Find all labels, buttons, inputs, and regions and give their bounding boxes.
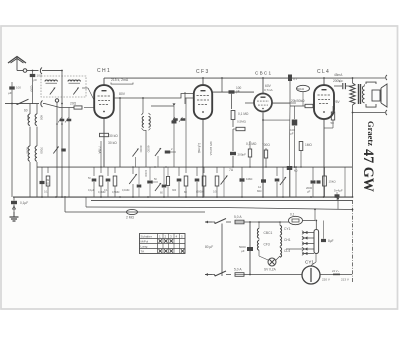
svg-text:0,5MΩ: 0,5MΩ — [112, 191, 120, 194]
svg-text:6000: 6000 — [139, 146, 143, 153]
svg-text:0,1MΩ: 0,1MΩ — [122, 189, 130, 192]
svg-text:45mA: 45mA — [334, 73, 343, 77]
svg-text:10000: 10000 — [144, 170, 147, 178]
svg-text:220 V: 220 V — [322, 278, 330, 282]
svg-text:Lang: Lang — [141, 245, 148, 249]
svg-text:15kΩ: 15kΩ — [329, 180, 337, 184]
svg-text:(500)Ω: (500)Ω — [196, 190, 204, 194]
svg-text:80 µF: 80 µF — [205, 245, 213, 249]
svg-text:pF: pF — [34, 78, 38, 82]
svg-text:30 kΩ: 30 kΩ — [108, 141, 117, 145]
svg-text:435 k/2mA: 435 k/2mA — [209, 141, 213, 155]
svg-text:µF: µF — [290, 132, 294, 136]
svg-text:0,1: 0,1 — [293, 77, 297, 81]
svg-text:µF: µF — [241, 249, 245, 253]
svg-text:213 V: 213 V — [341, 278, 349, 282]
svg-text:20Ω: 20Ω — [70, 102, 77, 106]
svg-text:µF: µF — [8, 91, 12, 95]
svg-text:1,8 mA: 1,8 mA — [197, 143, 201, 154]
svg-text:0,1µF: 0,1µF — [88, 189, 95, 192]
svg-text:0,1µF: 0,1µF — [20, 201, 28, 205]
svg-text:50: 50 — [331, 121, 335, 125]
svg-text:-200: -200 — [30, 85, 34, 92]
svg-text:Graetz: Graetz — [366, 121, 376, 146]
svg-text:5,0 A: 5,0 A — [234, 268, 242, 272]
svg-text:C B C 1: C B C 1 — [255, 71, 272, 76]
svg-text:pF: pF — [236, 90, 240, 94]
svg-text:0,7mA: 0,7mA — [264, 88, 273, 92]
svg-text:MiPol: MiPol — [141, 240, 149, 244]
svg-text:5,0 A: 5,0 A — [234, 215, 242, 219]
svg-text:47 GW: 47 GW — [360, 149, 376, 192]
svg-text:C F 3: C F 3 — [196, 69, 208, 75]
svg-text:80V: 80V — [119, 92, 126, 96]
svg-text:7000: 7000 — [40, 147, 44, 154]
svg-text:C L 4: C L 4 — [317, 69, 329, 75]
svg-text:0,5: 0,5 — [213, 191, 217, 194]
svg-text:200pF: 200pF — [238, 153, 247, 157]
svg-text:5+4µF: 5+4µF — [334, 189, 343, 193]
svg-text:µF: µF — [307, 190, 311, 194]
svg-text:4µF: 4µF — [338, 79, 343, 83]
svg-text:CY1: CY1 — [284, 227, 291, 231]
svg-text:0,5MΩ: 0,5MΩ — [237, 120, 247, 124]
svg-text:CH1: CH1 — [284, 238, 291, 242]
svg-text:0,1 MΩ: 0,1 MΩ — [238, 112, 249, 116]
svg-text:300: 300 — [172, 189, 177, 192]
svg-text:6000: 6000 — [147, 146, 151, 153]
svg-text:6000: 6000 — [26, 147, 30, 154]
svg-text:30 kΩ: 30 kΩ — [109, 134, 118, 138]
svg-text:0,3 MΩ: 0,3 MΩ — [246, 142, 257, 146]
svg-text:Schalter: Schalter — [141, 235, 152, 239]
svg-text:25V: 25V — [334, 100, 341, 104]
svg-text:600: 600 — [26, 115, 30, 120]
svg-text:1MΩ: 1MΩ — [305, 143, 312, 147]
svg-text:215 k, 2mA: 215 k, 2mA — [111, 78, 129, 82]
svg-text:MΩ: MΩ — [257, 189, 261, 193]
svg-text:CL4: CL4 — [284, 249, 290, 253]
svg-text:SV 0,2A: SV 0,2A — [264, 268, 277, 272]
svg-text:50kΩ: 50kΩ — [297, 87, 305, 91]
svg-text:0,1: 0,1 — [290, 213, 295, 217]
svg-text:100: 100 — [16, 86, 21, 90]
svg-text:C H 1: C H 1 — [97, 68, 110, 74]
svg-text:24 V ₓ: 24 V ₓ — [332, 269, 339, 273]
svg-text:0,1: 0,1 — [44, 191, 48, 194]
svg-text:600: 600 — [40, 115, 44, 120]
svg-text:2 MΩ: 2 MΩ — [126, 216, 134, 220]
svg-text:8µF: 8µF — [328, 239, 334, 243]
svg-text:CF3: CF3 — [264, 243, 270, 247]
svg-text:700Ω: 700Ω — [262, 143, 270, 147]
svg-text:1MΩ: 1MΩ — [246, 177, 253, 181]
svg-text:CBC1: CBC1 — [264, 231, 273, 235]
svg-text:60: 60 — [24, 109, 28, 113]
svg-text:0,1: 0,1 — [104, 189, 108, 192]
